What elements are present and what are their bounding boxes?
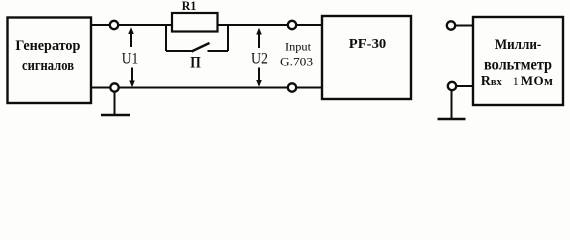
PF-30 box xyxy=(322,16,411,99)
svg-text:PF-30: PF-30 xyxy=(349,37,387,52)
arrow U2 up shaft xyxy=(258,33,260,48)
svg-text:U1: U1 xyxy=(122,51,139,68)
millivoltmeter bottom terminal xyxy=(448,82,456,90)
switch П right contact wire xyxy=(208,50,229,52)
terminal bottom-left xyxy=(110,83,118,91)
wire: mv ground drop xyxy=(451,90,453,118)
wire top: generator to terminal xyxy=(91,24,110,26)
arrow U1 down shaft xyxy=(131,68,133,82)
wire top: input terminal to PF-30 xyxy=(296,24,322,26)
arrow U1 up shaft xyxy=(130,33,132,47)
switch П left contact wire xyxy=(166,50,192,52)
switch П blade xyxy=(192,43,210,52)
wire bottom: terminal to input terminal xyxy=(119,87,288,89)
terminal bottom input G.703 xyxy=(288,83,296,91)
arrow U2 up head xyxy=(256,28,262,35)
terminal top input G.703 xyxy=(288,21,296,29)
millivoltmeter top terminal xyxy=(447,21,455,29)
arrow U1 down head xyxy=(129,81,135,88)
svg-text:МОм: МОм xyxy=(521,73,553,88)
arrow U2 down head xyxy=(256,80,262,87)
svg-text:G.703: G.703 xyxy=(280,55,313,69)
svg-text:сигналов: сигналов xyxy=(22,58,74,74)
svg-text:Генератор: Генератор xyxy=(15,38,80,54)
millivoltmeter box xyxy=(473,17,563,105)
wire: mv top terminal to box xyxy=(456,25,473,27)
svg-text:Милли-: Милли- xyxy=(495,37,542,53)
generator box xyxy=(8,18,92,104)
svg-text:R1: R1 xyxy=(182,0,197,13)
wire: ground drop left xyxy=(114,92,116,114)
wire: junction left vertical of R1 branch xyxy=(165,25,167,51)
svg-text:Input: Input xyxy=(285,41,312,53)
wire top: terminal to input terminal xyxy=(118,24,288,26)
svg-text:вольтметр: вольтметр xyxy=(484,56,552,73)
wire: junction right vertical of R1 branch xyxy=(227,25,229,51)
wire bottom: input terminal to PF-30 xyxy=(296,87,322,89)
svg-text:Rвх: Rвх xyxy=(481,74,503,89)
arrow U1 up head xyxy=(128,27,134,34)
ground right bar xyxy=(438,118,466,121)
svg-text:U2: U2 xyxy=(251,51,268,68)
ground left bar xyxy=(101,114,130,117)
arrow U2 down shaft xyxy=(258,68,260,82)
resistor R1 body xyxy=(172,13,218,32)
svg-text:П: П xyxy=(190,54,201,71)
wire: mv bottom terminal to box xyxy=(456,85,473,87)
svg-text:1: 1 xyxy=(513,74,519,88)
wire bottom: generator to terminal xyxy=(91,87,110,89)
terminal top-left xyxy=(110,21,118,29)
